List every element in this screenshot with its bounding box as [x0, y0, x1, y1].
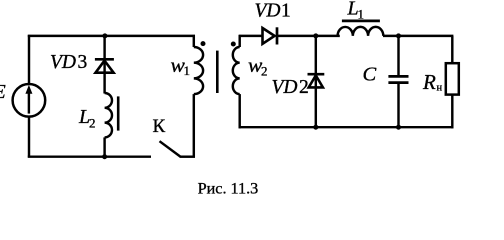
svg-text:2: 2	[89, 116, 96, 131]
svg-text:1: 1	[281, 0, 291, 21]
svg-text:C: C	[363, 64, 377, 86]
svg-text:2: 2	[261, 64, 268, 79]
svg-text:VD: VD	[255, 0, 281, 21]
svg-text:Рис. 11.3: Рис. 11.3	[198, 180, 259, 198]
svg-text:1: 1	[184, 63, 191, 78]
svg-text:E: E	[0, 81, 6, 103]
svg-text:2: 2	[299, 77, 309, 98]
svg-text:К: К	[153, 116, 166, 137]
svg-text:3: 3	[78, 52, 88, 73]
svg-text:R: R	[422, 70, 436, 94]
svg-text:VD: VD	[272, 77, 298, 98]
svg-text:н: н	[437, 83, 443, 94]
svg-text:VD: VD	[50, 52, 76, 73]
svg-text:1: 1	[358, 7, 365, 22]
